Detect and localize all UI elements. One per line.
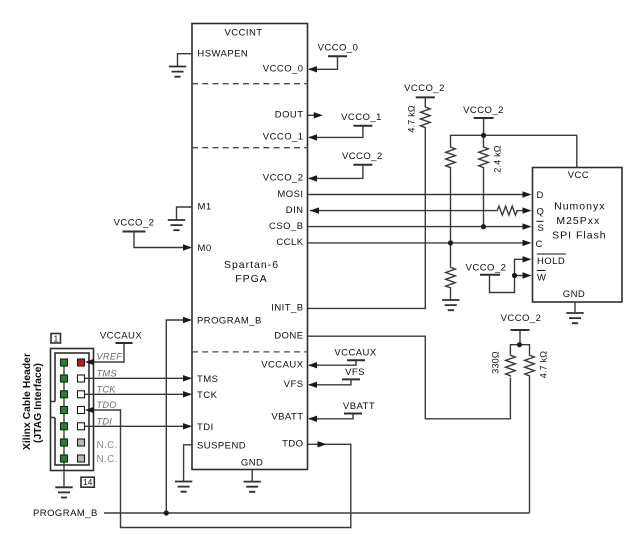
svg-text:VCCAUX: VCCAUX bbox=[100, 331, 143, 342]
svg-text:M1: M1 bbox=[198, 202, 212, 213]
svg-text:TDO: TDO bbox=[282, 439, 303, 450]
svg-text:N.C.: N.C. bbox=[97, 454, 118, 465]
svg-text:Q: Q bbox=[537, 207, 545, 218]
svg-text:D: D bbox=[537, 190, 544, 201]
svg-text:VBATT: VBATT bbox=[343, 401, 375, 412]
svg-text:(JTAG Interface): (JTAG Interface) bbox=[33, 363, 44, 443]
svg-text:TCK: TCK bbox=[97, 384, 117, 394]
svg-text:DIN: DIN bbox=[286, 205, 304, 216]
svg-text:Xilinx Cable Header: Xilinx Cable Header bbox=[22, 353, 33, 450]
svg-text:Spartan-6: Spartan-6 bbox=[224, 259, 279, 271]
svg-text:CCLK: CCLK bbox=[276, 237, 303, 248]
svg-text:VFS: VFS bbox=[284, 379, 304, 390]
svg-text:VCCO_2: VCCO_2 bbox=[342, 151, 383, 162]
svg-text:HSWAPEN: HSWAPEN bbox=[197, 49, 248, 60]
svg-text:VCCO_2: VCCO_2 bbox=[466, 263, 507, 274]
svg-text:Numonyx: Numonyx bbox=[554, 201, 605, 213]
svg-text:TCK: TCK bbox=[197, 390, 218, 401]
svg-text:PROGRAM_B: PROGRAM_B bbox=[197, 316, 262, 327]
svg-text:VCCINT: VCCINT bbox=[224, 28, 262, 39]
svg-text:14: 14 bbox=[83, 477, 93, 487]
svg-text:VCCO_2: VCCO_2 bbox=[114, 218, 155, 229]
svg-text:VCCO_1: VCCO_1 bbox=[341, 112, 382, 123]
svg-text:VCCO_0: VCCO_0 bbox=[318, 43, 359, 54]
svg-text:4.7 kΩ: 4.7 kΩ bbox=[538, 351, 548, 379]
svg-text:2.4 kΩ: 2.4 kΩ bbox=[492, 145, 502, 173]
svg-text:MOSI: MOSI bbox=[277, 189, 303, 200]
svg-text:VCCO_1: VCCO_1 bbox=[263, 132, 304, 143]
svg-text:DONE: DONE bbox=[274, 331, 303, 342]
svg-text:W: W bbox=[537, 272, 546, 283]
svg-text:VCCO_2: VCCO_2 bbox=[463, 105, 504, 116]
svg-text:VCCAUX: VCCAUX bbox=[334, 348, 377, 359]
svg-text:FPGA: FPGA bbox=[235, 273, 268, 285]
svg-text:TDI: TDI bbox=[197, 422, 214, 433]
svg-text:SPI Flash: SPI Flash bbox=[552, 229, 607, 241]
svg-text:CSO_B: CSO_B bbox=[269, 221, 303, 232]
svg-text:PROGRAM_B: PROGRAM_B bbox=[33, 508, 98, 519]
svg-text:HOLD: HOLD bbox=[537, 256, 565, 267]
svg-text:INIT_B: INIT_B bbox=[271, 303, 303, 314]
svg-text:VBATT: VBATT bbox=[271, 411, 303, 422]
svg-text:VCCO_2: VCCO_2 bbox=[263, 173, 304, 184]
svg-text:SUSPEND: SUSPEND bbox=[197, 440, 246, 451]
svg-text:TMS: TMS bbox=[97, 368, 118, 378]
svg-text:VFS: VFS bbox=[345, 367, 365, 378]
svg-text:GND: GND bbox=[563, 289, 585, 300]
svg-text:330Ω: 330Ω bbox=[490, 351, 500, 374]
svg-text:1: 1 bbox=[54, 333, 59, 343]
svg-text:VCCO_2: VCCO_2 bbox=[501, 313, 542, 324]
svg-text:4.7 kΩ: 4.7 kΩ bbox=[407, 105, 417, 133]
svg-text:VREF: VREF bbox=[97, 352, 124, 362]
svg-text:C: C bbox=[536, 239, 543, 250]
svg-text:VCC: VCC bbox=[568, 170, 589, 181]
svg-text:S: S bbox=[538, 223, 545, 234]
svg-text:M0: M0 bbox=[198, 243, 212, 254]
svg-text:DOUT: DOUT bbox=[275, 110, 304, 121]
svg-text:VCCAUX: VCCAUX bbox=[261, 360, 304, 371]
svg-text:M25Pxx: M25Pxx bbox=[556, 215, 600, 227]
svg-text:VCCO_2: VCCO_2 bbox=[404, 83, 445, 94]
svg-text:TDI: TDI bbox=[97, 416, 113, 426]
svg-text:VCCO_0: VCCO_0 bbox=[263, 64, 304, 75]
svg-text:N.C.: N.C. bbox=[97, 440, 118, 451]
svg-text:TMS: TMS bbox=[197, 374, 218, 385]
svg-text:TDO: TDO bbox=[97, 400, 117, 410]
svg-text:GND: GND bbox=[241, 458, 263, 469]
